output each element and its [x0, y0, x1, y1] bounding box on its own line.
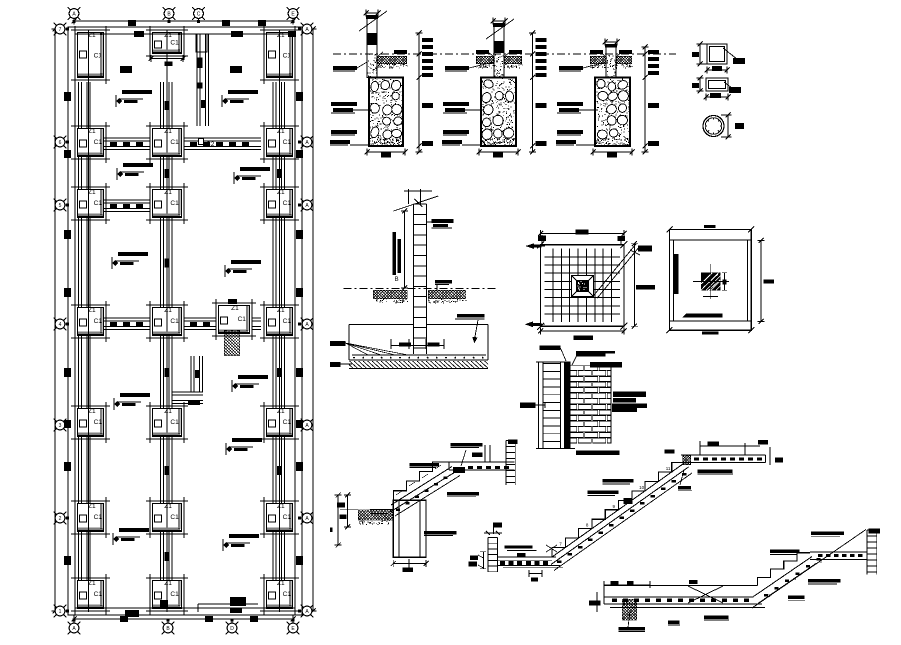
- svg-text:2: 2: [59, 516, 62, 522]
- svg-text:Z1: Z1: [277, 408, 285, 415]
- svg-text:Z1: Z1: [88, 580, 96, 587]
- svg-text:C1: C1: [283, 139, 292, 146]
- svg-text:Z1: Z1: [277, 128, 285, 135]
- svg-text:C1: C1: [94, 200, 103, 207]
- svg-text:Z1: Z1: [277, 189, 285, 196]
- svg-text:C1: C1: [170, 200, 179, 207]
- svg-text:5: 5: [59, 203, 62, 209]
- svg-text:Z1: Z1: [88, 503, 96, 510]
- svg-text:B: B: [395, 277, 399, 283]
- svg-text:3: 3: [59, 423, 62, 429]
- svg-text:6: 6: [59, 140, 62, 146]
- svg-text:C1: C1: [94, 139, 103, 146]
- svg-text:C1: C1: [238, 316, 247, 323]
- svg-text:Z1: Z1: [88, 189, 96, 196]
- svg-text:C1: C1: [283, 419, 292, 426]
- svg-text:Z1: Z1: [277, 32, 285, 39]
- svg-text:D: D: [230, 626, 234, 632]
- svg-text:4: 4: [59, 322, 62, 328]
- svg-text:Z1: Z1: [88, 408, 96, 415]
- svg-text:Z1: Z1: [88, 32, 96, 39]
- svg-text:11: 11: [666, 466, 671, 471]
- svg-text:C1: C1: [170, 318, 179, 325]
- svg-text:C1: C1: [170, 419, 179, 426]
- svg-text:7: 7: [59, 27, 62, 33]
- svg-text:C1: C1: [94, 419, 103, 426]
- svg-text:Z1: Z1: [277, 580, 285, 587]
- svg-text:C1: C1: [283, 53, 292, 60]
- svg-text:C1: C1: [170, 591, 179, 598]
- svg-text:C1: C1: [283, 200, 292, 207]
- svg-text:1: 1: [59, 609, 62, 615]
- svg-text:Z1: Z1: [164, 503, 172, 510]
- svg-text:Z1: Z1: [277, 503, 285, 510]
- svg-text:C1: C1: [94, 53, 103, 60]
- svg-text:Z1: Z1: [164, 580, 172, 587]
- svg-text:10: 10: [639, 485, 645, 490]
- svg-text:C1: C1: [170, 139, 179, 146]
- svg-text:C1: C1: [94, 318, 103, 325]
- svg-text:Z1: Z1: [88, 307, 96, 314]
- svg-text:C: C: [197, 12, 201, 18]
- svg-text:C1: C1: [170, 39, 179, 46]
- svg-text:C1: C1: [170, 514, 179, 521]
- svg-text:Z1: Z1: [164, 307, 172, 314]
- svg-text:Z1: Z1: [164, 408, 172, 415]
- svg-text:Z1: Z1: [164, 32, 172, 39]
- svg-text:Z1: Z1: [231, 305, 239, 312]
- svg-text:Z1: Z1: [277, 307, 285, 314]
- svg-text:Z1: Z1: [164, 128, 172, 135]
- svg-text:Z1: Z1: [88, 128, 96, 135]
- svg-text:C1: C1: [283, 514, 292, 521]
- svg-text:Z1: Z1: [164, 189, 172, 196]
- svg-text:C1: C1: [283, 591, 292, 598]
- svg-text:C1: C1: [94, 591, 103, 598]
- svg-text:C1: C1: [283, 318, 292, 325]
- svg-text:C1: C1: [94, 514, 103, 521]
